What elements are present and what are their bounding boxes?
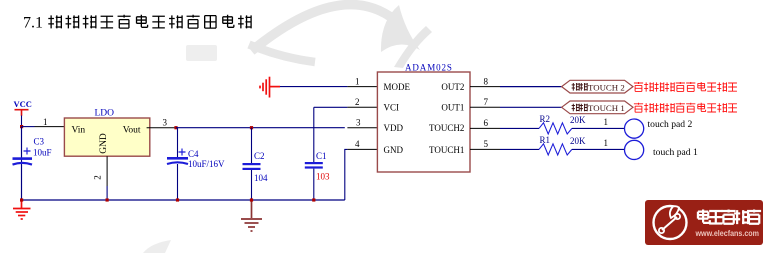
annotation red row1: 有触摸时为高电平输出	[634, 82, 737, 92]
svg-text:2: 2	[93, 175, 103, 180]
junction rail at C4	[176, 198, 179, 201]
pin 7 line of U1 OUT1	[470, 106, 500, 108]
svg-text:6: 6	[484, 118, 489, 128]
svg-text:GND: GND	[99, 133, 109, 154]
wire R1 to pad	[572, 148, 625, 150]
pin 1 line of U1 MODE	[347, 86, 377, 88]
watermark bottom swoosh	[143, 240, 171, 253]
junction at VCC/pin1	[20, 125, 23, 128]
svg-text:20K: 20K	[570, 136, 586, 146]
svg-text:104: 104	[254, 173, 268, 183]
ground symbol (dark red, below C2)	[241, 200, 262, 231]
svg-text:1: 1	[604, 138, 609, 148]
svg-text:1: 1	[604, 117, 609, 127]
svg-text:10uF: 10uF	[33, 148, 52, 158]
pin 6 line of U1 TOUCH2	[470, 127, 500, 129]
svg-text:C1: C1	[316, 151, 327, 161]
svg-text:1: 1	[43, 117, 48, 127]
wire VCI	[314, 106, 348, 108]
svg-text:TOUCH 2: TOUCH 2	[588, 82, 625, 92]
wire VCC vertical	[21, 116, 23, 201]
pin 8 line of U1 OUT2	[470, 86, 500, 88]
pin 1 line of LDO	[35, 126, 65, 128]
svg-text:7.1: 7.1	[23, 15, 43, 32]
svg-text:touch pad 1: touch pad 1	[653, 147, 698, 158]
resistor R2	[539, 123, 572, 134]
junction rail at LDO pin2	[106, 198, 109, 201]
wire ground rail	[22, 199, 345, 201]
wire to LDO pin1	[22, 126, 35, 128]
pin 3 line of U1 VDD	[347, 127, 377, 129]
ground symbol (sideways red, at MODE)	[260, 77, 280, 98]
svg-text:touch pad 2: touch pad 2	[648, 119, 693, 130]
svg-text:TOUCH2: TOUCH2	[429, 123, 464, 133]
junction rail at C1	[312, 198, 315, 201]
svg-text:7: 7	[484, 97, 489, 107]
wire GND pin4 riser	[345, 149, 348, 200]
capacitor C3	[13, 127, 33, 200]
pin 5 line of U1 TOUCH1	[470, 148, 500, 150]
elecfans watermark badge	[645, 200, 763, 245]
watermark arc lower band	[249, 45, 315, 63]
svg-text:VCI: VCI	[384, 103, 400, 113]
svg-text:103: 103	[316, 171, 330, 181]
svg-text:2: 2	[355, 97, 360, 107]
watermark faint square	[186, 45, 217, 61]
svg-text:8: 8	[484, 76, 489, 86]
capacitor C4	[167, 128, 188, 200]
svg-text:Vout: Vout	[123, 125, 141, 135]
svg-text:C4: C4	[188, 149, 199, 159]
junction at C2	[250, 126, 253, 129]
svg-text:TOUCH1: TOUCH1	[429, 145, 464, 155]
svg-text:ADAM02S: ADAM02S	[405, 63, 453, 73]
svg-text:GND: GND	[384, 145, 404, 155]
svg-text:www.elecfans.com: www.elecfans.com	[695, 228, 760, 238]
pin 2 line of U1 VCI	[347, 106, 377, 108]
wire OUT1 to port	[500, 106, 562, 108]
ground symbol (red, below C3)	[13, 200, 31, 219]
svg-text:C3: C3	[34, 136, 45, 146]
capacitor C1	[305, 107, 323, 200]
svg-text:10uF/16V: 10uF/16V	[188, 159, 225, 169]
svg-text:MODE: MODE	[384, 82, 411, 92]
svg-text:4: 4	[355, 139, 360, 149]
junction rail at C3/VCC	[20, 198, 23, 201]
svg-text:1: 1	[355, 76, 360, 86]
touch pad 1 circle	[625, 140, 644, 159]
polarity + of C3	[24, 148, 31, 155]
svg-text:R2: R2	[540, 114, 551, 124]
regulator U LDO body	[64, 118, 149, 156]
junction rail at C2	[250, 198, 253, 201]
title chinese: 触摸输出高电平的应用电路	[48, 15, 251, 29]
svg-text:C2: C2	[254, 151, 265, 161]
svg-text:Vin: Vin	[72, 125, 86, 135]
watermark diagonal swoosh	[394, 26, 432, 68]
IC U1 ADAM02S body	[377, 72, 470, 172]
svg-text:OUT1: OUT1	[441, 103, 464, 113]
annotation red row2	[634, 103, 737, 113]
svg-text:20K: 20K	[570, 115, 586, 125]
pin 2 line of LDO	[106, 156, 108, 186]
svg-text:OUT2: OUT2	[441, 82, 464, 92]
wire VDD trunk	[176, 127, 345, 129]
svg-text:TOUCH 1: TOUCH 1	[588, 103, 625, 113]
power VCC bar symbol	[15, 110, 29, 116]
wire TOUCH1 to R1	[500, 148, 539, 150]
svg-text:5: 5	[484, 139, 489, 149]
touch pad 2 circle	[625, 119, 644, 138]
wire LDO pin2 to ground rail	[106, 186, 108, 200]
port 对外TOUCH 1	[562, 101, 633, 114]
svg-text:LDO: LDO	[95, 109, 115, 119]
wire OUT2 to port	[500, 86, 562, 88]
svg-text:R1: R1	[540, 135, 551, 145]
port 对外TOUCH 2	[562, 80, 633, 93]
svg-text:3: 3	[163, 117, 168, 127]
wire MODE	[280, 86, 347, 88]
watermark leaf	[381, 5, 420, 52]
resistor R1	[539, 144, 572, 155]
pin 4 line of U1 GND	[347, 148, 377, 150]
badge text dianzifashaoyou	[698, 210, 761, 225]
pin 3 line of LDO	[147, 127, 176, 129]
wire TOUCH2 to R2	[500, 127, 539, 129]
polarity + of C4	[179, 149, 186, 156]
svg-text:3: 3	[356, 117, 361, 127]
capacitor C2	[243, 128, 261, 200]
wire R2 to pad	[572, 127, 625, 129]
watermark arc (big crescent, elecfans logo fragment)	[252, 5, 391, 51]
svg-text:VCC: VCC	[14, 99, 32, 109]
junction at Vout/C4	[174, 126, 177, 129]
svg-text:VDD: VDD	[384, 123, 404, 133]
